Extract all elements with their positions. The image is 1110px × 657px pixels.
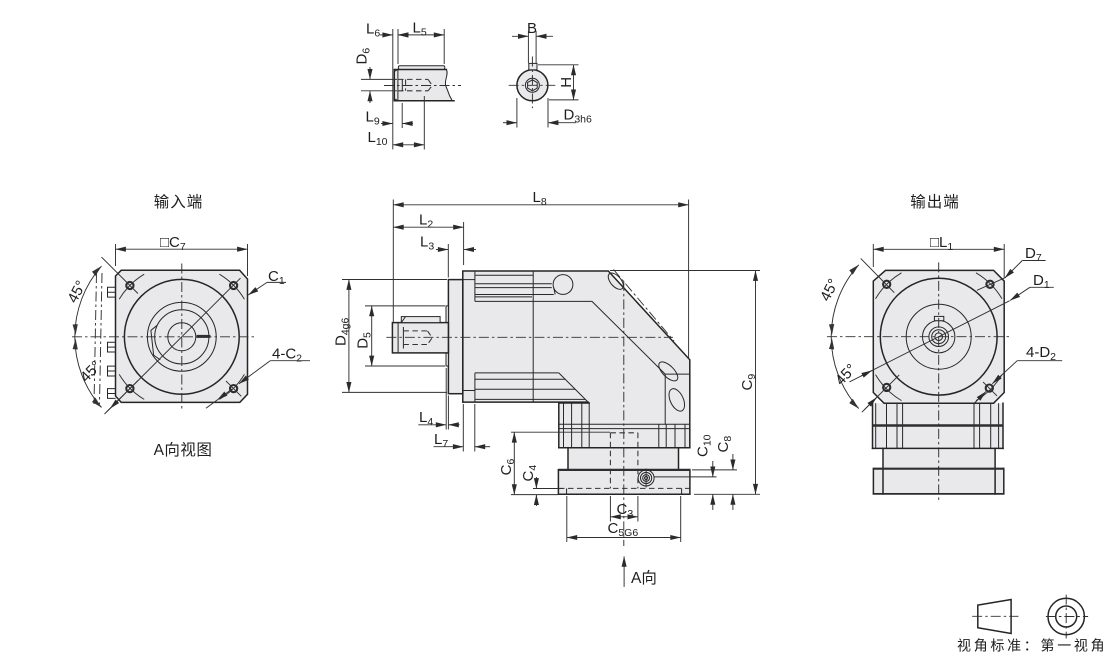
hub keyway box <box>934 316 943 320</box>
view centerlines <box>827 336 1012 338</box>
svg-text:输入端: 输入端 <box>154 193 204 211</box>
top face hole (teardrop) <box>553 275 573 295</box>
hidden bore bottom <box>398 90 428 92</box>
svg-text:H: H <box>558 77 575 88</box>
lower body: flange band ribs <box>872 403 874 448</box>
mid body section line <box>532 271 534 402</box>
dimension D4g6 <box>333 317 352 346</box>
angle arc upper 45 <box>75 266 102 337</box>
bearing circle <box>147 302 216 371</box>
45 degree label upper <box>64 278 90 306</box>
angle arc lower 45 <box>75 337 102 408</box>
body outline <box>463 271 690 448</box>
shaft end face line <box>397 70 399 101</box>
SECTION: top circular end view <box>503 20 592 128</box>
gearbox body silhouette <box>463 271 690 494</box>
input flange plate <box>448 280 462 394</box>
bore thread marks <box>401 79 403 90</box>
lower body fill <box>873 403 1004 494</box>
45 degree label upper <box>817 276 842 304</box>
bolt hole tick bottom-right <box>983 382 997 396</box>
shaft outer circle <box>517 70 548 101</box>
bolt hole diagonal tick top-left (45 ray) <box>102 257 138 293</box>
bearing circle <box>906 304 971 369</box>
SECTION: right flange view (output end) <box>817 193 1062 501</box>
set screw side view <box>638 469 654 488</box>
output flange square outline <box>873 270 1004 403</box>
body bottom edge <box>463 401 588 403</box>
lower bevel hole oval <box>666 386 688 413</box>
bolt hole bottom-right <box>986 385 993 392</box>
output shaft circles <box>929 327 949 347</box>
output flange band <box>559 402 589 404</box>
input shaft <box>392 323 448 353</box>
arc end arrows <box>849 265 859 275</box>
circle centerlines <box>509 84 556 86</box>
bevel corner hole oval <box>605 270 626 292</box>
coupling key slot mark <box>197 335 211 338</box>
dimension C4 <box>520 465 539 482</box>
flange square outline <box>116 270 248 402</box>
bolt circle corner arcs r73 <box>119 274 144 299</box>
shaft centerline <box>384 85 461 87</box>
frustum end view circles <box>1048 598 1084 634</box>
shaft end chamfer marks <box>394 70 398 101</box>
bolt hole top-right <box>230 282 237 289</box>
hidden bore top <box>398 78 428 80</box>
bevel inner corner vertical <box>664 374 666 424</box>
shaft socket step <box>402 327 404 349</box>
output mounting plate <box>558 470 690 494</box>
input pilot boss <box>446 306 448 366</box>
dimension C10 <box>695 434 714 457</box>
dimension D5 <box>355 332 374 349</box>
svg-text:A向视图: A向视图 <box>154 441 213 459</box>
horizontal centerline <box>386 336 673 338</box>
SECTION: first angle projection symbol <box>957 595 1107 654</box>
bolt hole bottom-left <box>883 384 890 391</box>
shaft outline <box>394 70 454 101</box>
view centerlines <box>72 336 256 338</box>
hex socket bore <box>525 78 539 92</box>
bottom step corner <box>463 390 475 392</box>
plate pilot hidden line <box>559 487 690 489</box>
L6/L5 extension lines <box>392 29 394 149</box>
bottom chamfer diagonal <box>559 373 588 402</box>
bolt hole bottom-right <box>230 385 237 392</box>
45 degree label lower <box>832 361 860 389</box>
arc end arrows <box>92 266 102 276</box>
phantom rotated-corner tabs <box>108 287 116 398</box>
bolt hole top-right <box>986 281 993 288</box>
input shaft key <box>401 317 440 323</box>
45 degree label lower <box>77 358 105 386</box>
main 45-degree diagonal through centre <box>107 278 241 412</box>
svg-text:A向: A向 <box>631 569 657 587</box>
45 degree ray bottom-left <box>105 381 139 415</box>
key on shaft (detail) <box>398 66 444 70</box>
pilot circle <box>880 278 997 395</box>
keyway slot box <box>529 63 537 69</box>
coupling profile circle with flat tab <box>155 310 209 364</box>
bevel face hole oval <box>656 359 681 384</box>
top step corner <box>463 279 475 281</box>
shaft bore circle <box>168 323 196 351</box>
hub circle <box>923 321 955 353</box>
top fin band lines <box>475 274 533 276</box>
shaft circle fill <box>517 70 548 101</box>
SECTION: main central view <box>333 189 761 587</box>
pilot circle C1 <box>124 279 239 394</box>
shaft end face line <box>397 323 399 353</box>
angle arc lower 45 <box>831 337 859 409</box>
45 ray through bottom-left hole <box>862 375 899 412</box>
band groove lines <box>873 424 1004 427</box>
flange square fill <box>116 270 248 402</box>
svg-text:输出端: 输出端 <box>910 193 960 211</box>
output flange square fill <box>873 270 1004 403</box>
dimension C6 <box>498 459 517 476</box>
dimension C8 <box>715 436 734 453</box>
bottom fin band lines <box>475 372 559 374</box>
shaft hidden bore <box>403 330 427 332</box>
frustum side view <box>978 600 1011 634</box>
bolt circle corner arcs <box>876 273 902 299</box>
input shaft body (detail) <box>394 70 452 101</box>
shaft break line <box>445 70 452 101</box>
SECTION: left flange view (input end) <box>64 193 310 459</box>
dimension C9 <box>739 374 758 391</box>
hidden output bore <box>609 433 611 489</box>
phantom swing lines (dash-dot) <box>94 273 97 404</box>
dimension H <box>558 77 575 88</box>
bolt hole top-left <box>126 282 133 289</box>
bottom plate <box>873 469 1003 494</box>
45 ray through top-left hole <box>861 258 895 292</box>
bolt hole diagonal tick bottom-right <box>226 381 241 396</box>
view arrow A向 <box>623 556 625 587</box>
D1 diagonal through centre <box>850 301 1010 382</box>
angle arc upper 45 <box>831 265 859 337</box>
dimension D6 <box>354 48 373 65</box>
bolt hole bottom-left <box>126 385 133 392</box>
neck <box>882 448 884 494</box>
vertical output axis centerline <box>623 281 625 546</box>
plate pilot notches <box>566 488 568 494</box>
svg-text:视角标准：第一视角: 视角标准：第一视角 <box>957 638 1107 654</box>
bolt hole top-left <box>883 281 890 288</box>
hidden bore cone <box>428 79 432 90</box>
output neck <box>567 448 569 470</box>
SECTION: top shaft detail view <box>354 20 462 150</box>
oblique hole axis centerline <box>614 270 675 342</box>
